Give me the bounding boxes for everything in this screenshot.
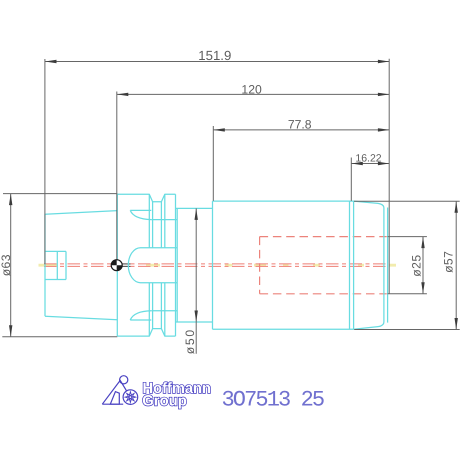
svg-text:ø63: ø63 bbox=[0, 254, 13, 276]
svg-text:3O7513 25: 3O7513 25 bbox=[222, 388, 324, 413]
svg-text:ø25: ø25 bbox=[410, 254, 424, 276]
svg-text:120: 120 bbox=[241, 83, 262, 97]
svg-text:Group: Group bbox=[142, 392, 187, 409]
svg-text:16.22: 16.22 bbox=[355, 153, 381, 165]
svg-text:ø57: ø57 bbox=[442, 251, 456, 273]
svg-text:ø50: ø50 bbox=[183, 328, 197, 354]
svg-text:77.8: 77.8 bbox=[288, 118, 312, 132]
svg-text:151.9: 151.9 bbox=[198, 48, 231, 63]
